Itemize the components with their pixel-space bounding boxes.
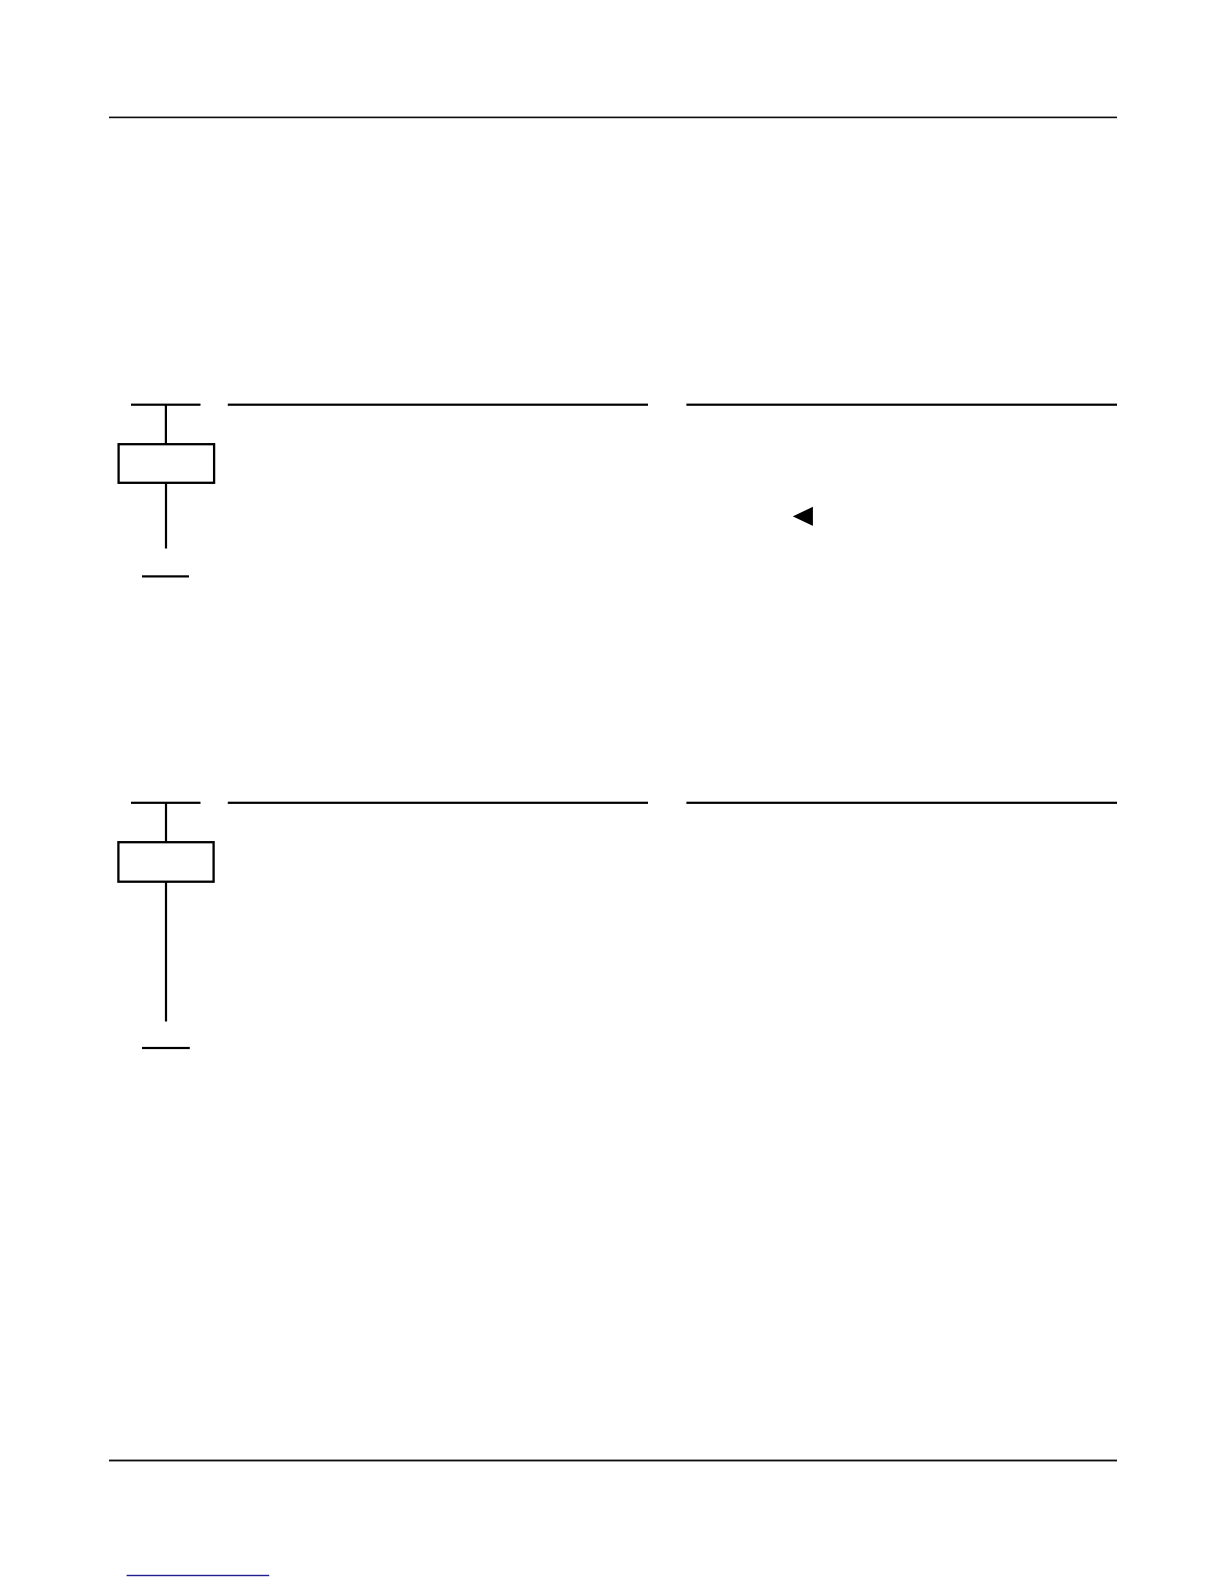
header rule [109, 117, 1117, 119]
node A top rail segment 1 [131, 404, 201, 406]
step box 1 [119, 444, 215, 483]
node B top rail segment 1 [131, 802, 201, 804]
wire lead below step box 1 [165, 484, 167, 549]
node B top rail segment 2 [228, 802, 648, 804]
hyperlink underline [127, 1575, 270, 1576]
triangle marker [793, 507, 813, 526]
node A top rail segment 2 [228, 404, 648, 406]
transition bar 1 [142, 575, 189, 577]
step box 2 [118, 842, 213, 882]
node A top rail segment 3 [686, 404, 1117, 406]
transition bar 2 [142, 1047, 190, 1049]
node B top rail segment 3 [686, 802, 1117, 804]
footer rule [109, 1460, 1117, 1462]
wire lead into step box 1 [165, 405, 167, 445]
wire lead below step box 2 [165, 883, 167, 1022]
wire lead into step box 2 [165, 803, 167, 843]
